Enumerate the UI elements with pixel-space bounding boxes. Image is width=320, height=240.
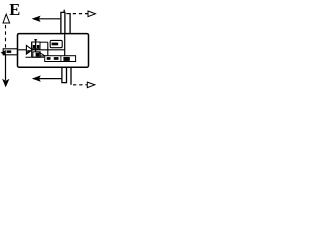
vertical from pipes into box (64, 34, 66, 56)
hollow up arrowhead under E (3, 14, 10, 23)
hollow right arrowhead top (88, 11, 95, 17)
filled down arrowhead (2, 79, 9, 88)
dark block in lower rect (36, 53, 40, 57)
top-left arrow line (39, 18, 61, 20)
bottom third pipe (70, 67, 72, 85)
bottom U pipe (62, 67, 67, 82)
nozzle dark lower half (27, 50, 31, 53)
big valve body box (18, 34, 89, 68)
wedge bottom (41, 55, 45, 57)
filled right nozzle triangle (26, 45, 32, 54)
filled left arrowhead bottom (32, 75, 41, 81)
mid vertical (47, 42, 49, 56)
dashed pilot line down from arrowhead (5, 25, 7, 48)
solid line down to arrow (5, 55, 7, 81)
spool lower rect (33, 52, 40, 57)
spool upper rect (32, 42, 40, 49)
spool stem vertical (35, 39, 37, 52)
bridge dash between pipes (66, 13, 70, 15)
dash inside small left box (7, 50, 12, 53)
spool land dark left (33, 45, 35, 48)
dark dash c (63, 57, 69, 61)
filled left arrowhead top (32, 16, 41, 22)
bottom band top line (45, 56, 76, 62)
shelf line lower left (26, 56, 45, 58)
filled left arrowhead on small box (1, 50, 6, 56)
dark dash in right chamber (52, 43, 59, 46)
right chamber rounded rect (50, 40, 62, 47)
bottom-left arrow line (39, 78, 62, 80)
top-right dashed signal line (73, 13, 88, 15)
hollow right arrowhead bottom (87, 82, 95, 88)
vertical bar right of nozzle (31, 42, 33, 57)
dark dash b (54, 57, 59, 60)
bottom-right dashed signal line (73, 84, 87, 86)
supply pipe pair (inverted U) (61, 12, 65, 33)
interior mid rail (18, 49, 64, 51)
small left box (3, 49, 17, 55)
pipe 2 upper extension (63, 10, 65, 13)
dark dash a (47, 57, 51, 60)
wedge diagonal (39, 52, 45, 56)
spool stem top tick (34, 39, 37, 41)
third pipe (69, 13, 71, 34)
spool land dark right (37, 45, 40, 48)
band divider (60, 56, 62, 62)
svg-text:E: E (9, 0, 20, 19)
upper rail segment (40, 41, 48, 43)
